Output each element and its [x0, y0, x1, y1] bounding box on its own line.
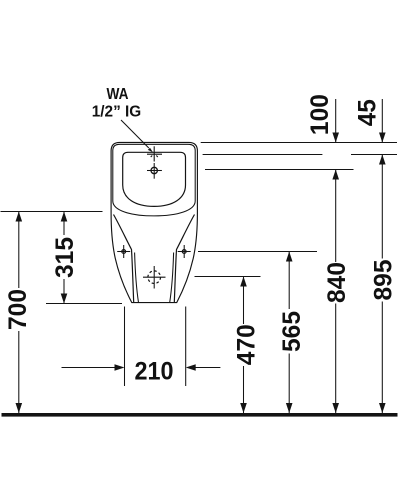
arrow 210 left: [186, 364, 196, 371]
arrow 895 up: [379, 155, 386, 165]
urinal inner bowl: [123, 152, 186, 206]
arrow 45 down: [379, 133, 386, 143]
dimension 315 line: [63, 212, 65, 236]
extension line left top (700/315): [1, 211, 103, 213]
svg-text:100: 100: [306, 94, 334, 135]
arrow 100 down: [332, 133, 339, 143]
arrow 315 down: [61, 294, 68, 304]
leader line from WA label: [121, 120, 149, 148]
svg-text:565: 565: [278, 311, 306, 352]
left foot inner line: [135, 253, 139, 303]
left shoulder curve to foot: [114, 215, 134, 303]
arrow 700 up: [16, 212, 23, 222]
leader arrowhead: [148, 148, 153, 153]
extension line rim top right: [201, 142, 397, 144]
extension line 210 right: [185, 307, 187, 387]
arrow 700 down: [16, 403, 23, 413]
extension line 565 level: [198, 251, 317, 253]
arrow 895 down: [379, 403, 386, 413]
arrow 565 down: [286, 403, 293, 413]
right side fixing hole: [182, 250, 186, 254]
dimension 700 line: [18, 212, 20, 289]
svg-text:1/2” IG: 1/2” IG: [92, 104, 142, 121]
WA connection cross: [147, 146, 162, 161]
svg-text:210: 210: [135, 358, 174, 386]
extension line 210 left: [124, 307, 126, 387]
dimension 470 line: [243, 277, 245, 325]
svg-text:700: 700: [4, 289, 32, 330]
extension line 470 level: [195, 276, 261, 278]
arrow 470 down: [240, 403, 247, 413]
arrow 315 up: [61, 212, 68, 222]
svg-text:895: 895: [369, 260, 397, 301]
arrow 565 up: [286, 252, 293, 262]
arrow 840 down: [332, 403, 339, 413]
arrow 840 up: [332, 170, 339, 180]
dimension 45/895 line: [381, 99, 383, 142]
fixing hole circle below WA: [151, 167, 157, 173]
svg-text:WA: WA: [107, 86, 129, 103]
dimension 565 line: [288, 252, 290, 310]
urinal rim inner line with front arc: [113, 144, 195, 216]
svg-text:315: 315: [51, 237, 79, 278]
svg-text:470: 470: [233, 324, 261, 365]
svg-text:840: 840: [323, 262, 351, 303]
outlet dashed circle: [148, 271, 161, 284]
ground line: [2, 413, 398, 417]
left side fixing hole: [122, 250, 126, 254]
arrow 210 right: [115, 364, 125, 371]
arrow 470 up: [240, 277, 247, 287]
right foot inner line: [170, 253, 174, 303]
dimension 100/840 line: [335, 99, 337, 142]
svg-text:45: 45: [354, 99, 382, 126]
urinal outer silhouette: [111, 142, 197, 302]
dimension 210 line: [62, 367, 116, 369]
right shoulder curve to foot: [174, 215, 194, 303]
extension line WA level: [203, 154, 323, 156]
extension line left bottom (315): [46, 303, 122, 305]
extension line 100 level: [205, 169, 354, 171]
